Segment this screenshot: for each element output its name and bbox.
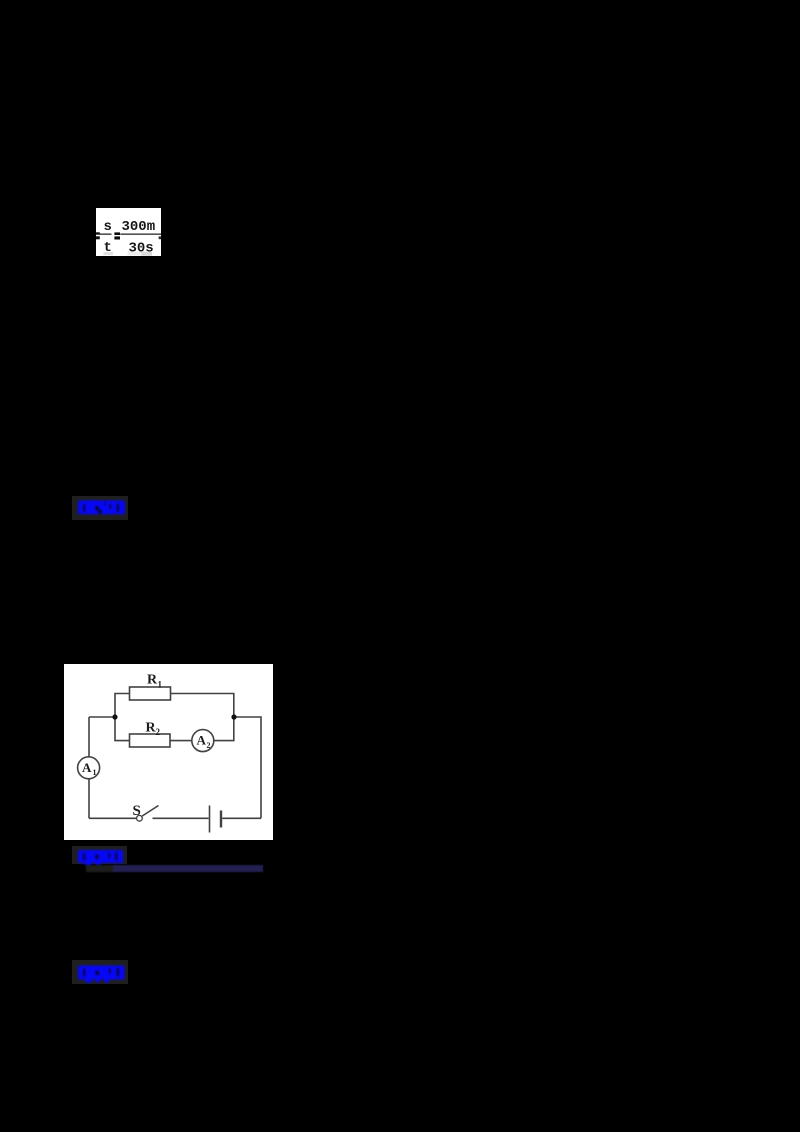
svg-text:300m: 300m — [122, 219, 156, 235]
svg-text:2: 2 — [207, 741, 211, 750]
svg-text:1: 1 — [158, 680, 163, 690]
svg-text:R: R — [147, 673, 158, 688]
svg-text:s: s — [104, 219, 112, 235]
svg-text:1: 1 — [93, 768, 97, 777]
svg-text:A: A — [197, 733, 207, 748]
svg-text:2: 2 — [156, 727, 161, 737]
svg-text:A: A — [82, 760, 92, 775]
svg-text:S: S — [133, 803, 141, 819]
